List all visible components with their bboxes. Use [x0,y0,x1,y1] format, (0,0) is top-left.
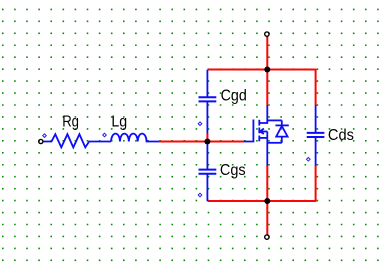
svg-text:Cds: Cds [328,127,354,144]
svg-text:Cgs: Cgs [220,162,246,179]
svg-text:Lg: Lg [111,114,127,131]
svg-text:Cgd: Cgd [221,87,247,104]
svg-text:Rg: Rg [62,114,79,131]
